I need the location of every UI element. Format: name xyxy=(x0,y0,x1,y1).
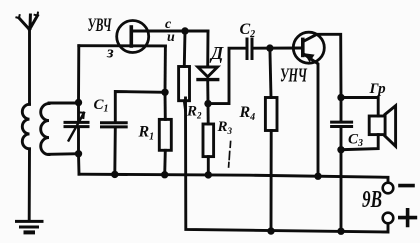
svg-text:9В: 9В xyxy=(362,187,382,213)
svg-text:R2: R2 xyxy=(186,104,202,121)
svg-text:з: з xyxy=(106,43,114,62)
svg-text:УНЧ: УНЧ xyxy=(280,64,308,86)
svg-text:и: и xyxy=(167,30,175,45)
svg-text:C1: C1 xyxy=(94,97,109,115)
svg-text:C2: C2 xyxy=(240,21,256,40)
svg-text:Гр: Гр xyxy=(369,81,387,97)
svg-text:R3: R3 xyxy=(217,119,233,136)
svg-text:Д: Д xyxy=(209,43,224,63)
svg-text:C3: C3 xyxy=(348,132,363,150)
svg-text:УВЧ: УВЧ xyxy=(88,15,112,36)
svg-text:R1: R1 xyxy=(138,124,155,143)
svg-text:R4: R4 xyxy=(239,104,256,123)
